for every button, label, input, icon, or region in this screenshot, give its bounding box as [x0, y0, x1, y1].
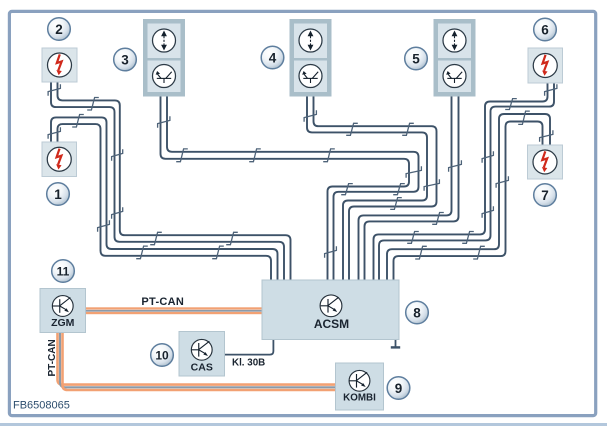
twisted-pair mark [424, 179, 439, 191]
twisted-pair mark [415, 246, 427, 259]
twisted-pair mark [87, 98, 99, 111]
twisted-pair mark [325, 246, 337, 258]
svg-text:4: 4 [269, 51, 277, 66]
twisted-pair mark [406, 166, 421, 178]
control unit ACSM U8 [262, 280, 399, 340]
wire squib1 (+) to ACSM [51, 117, 278, 281]
wire squib6 (-) to ACSM [379, 83, 554, 281]
twisted-pair mark [304, 110, 316, 122]
svg-text:3: 3 [121, 53, 129, 68]
svg-text:10: 10 [155, 348, 169, 362]
igniter squib 2 (driver airbag stage 1) [42, 48, 77, 82]
PT-CAN bus ZGM to ACSM [85, 307, 262, 314]
svg-text:KOMBI: KOMBI [343, 393, 376, 404]
callout badge 2 [48, 18, 71, 41]
svg-text:FB6508065: FB6508065 [13, 399, 70, 411]
callout badge 8 [406, 301, 429, 324]
svg-text:ZGM: ZGM [51, 317, 75, 329]
wire sensor3 (a) to ACSM [161, 97, 410, 282]
igniter squib 7 (passenger airbag stage 2) [528, 145, 563, 179]
twisted-pair mark [112, 149, 123, 161]
twisted-pair mark [323, 149, 335, 162]
twisted-pair mark [482, 151, 493, 163]
twisted-pair mark [346, 123, 358, 135]
module ZGM [40, 289, 86, 333]
twisted-pair mark [518, 111, 530, 124]
twisted-pair mark [432, 213, 444, 225]
wire sensor5 (a) to ACSM [359, 97, 452, 282]
twisted-pair mark [98, 220, 110, 232]
twisted-pair mark [341, 184, 353, 195]
twisted-pair mark [249, 149, 261, 162]
twisted-pair mark [150, 232, 162, 244]
twisted-pair mark [158, 116, 170, 128]
ground symbol ACSM [391, 340, 400, 348]
sensor unit 5 (right seat belt tensioner) [434, 19, 476, 97]
igniter squib 1 (driver airbag stage 2) [42, 142, 77, 177]
wire sensor3 (b) to ACSM [167, 97, 419, 282]
wire sensor5 (b) to ACSM [365, 97, 459, 282]
wire squib7 (-) to ACSM [394, 122, 543, 282]
svg-text:PT-CAN: PT-CAN [141, 296, 184, 308]
sensor unit 3 (left seat belt tensioner) [143, 19, 185, 97]
twisted-pair mark [482, 206, 493, 218]
twisted-pair mark [540, 130, 553, 142]
callout badge 9 [387, 377, 410, 400]
svg-text:5: 5 [412, 52, 420, 67]
twisted-pair mark [473, 246, 485, 259]
wire sensor4 (b) to ACSM [314, 97, 437, 282]
twisted-pair mark [72, 115, 84, 128]
twisted-pair mark [136, 246, 148, 259]
twisted-pair mark [226, 232, 238, 244]
svg-text:1: 1 [54, 187, 62, 202]
svg-text:PT-CAN: PT-CAN [47, 339, 58, 376]
svg-text:8: 8 [413, 306, 421, 321]
svg-text:11: 11 [57, 264, 70, 278]
twisted-pair mark [407, 232, 419, 244]
svg-text:2: 2 [55, 22, 63, 37]
twisted-pair mark [390, 198, 402, 210]
twisted-pair mark [112, 207, 123, 219]
twisted-pair mark [176, 149, 188, 162]
twisted-pair mark [496, 176, 508, 188]
PT-CAN bus ZGM to KOMBI [58, 333, 336, 391]
svg-text:9: 9 [395, 381, 403, 396]
svg-text:ACSM: ACSM [314, 317, 349, 331]
wire Kl. 30B CAS to ACSM [225, 340, 274, 355]
twisted-pair mark [462, 232, 474, 244]
twisted-pair mark [545, 84, 557, 96]
twisted-pair mark [48, 127, 60, 139]
svg-text:Kl. 30B: Kl. 30B [232, 357, 265, 368]
callout badge 6 [534, 18, 557, 41]
module CAS [179, 332, 225, 377]
svg-text:6: 6 [541, 23, 549, 38]
callout badge 10 [151, 344, 174, 367]
callout badge 1 [47, 183, 70, 206]
module KOMBI [336, 363, 384, 410]
svg-text:CAS: CAS [191, 361, 213, 373]
sensor unit 4 (center sensor) [290, 19, 332, 97]
twisted-pair mark [505, 99, 517, 110]
callout badge 3 [114, 48, 137, 71]
twisted-pair mark [402, 123, 414, 135]
twisted-pair mark [212, 246, 224, 259]
wire squib2 (-) to ACSM [51, 82, 284, 281]
twisted-pair mark [48, 84, 60, 96]
callout badge 7 [534, 184, 557, 207]
igniter squib 6 (passenger airbag stage 1) [528, 48, 563, 83]
wire squib1 (-) to ACSM [58, 124, 272, 281]
callout badge 5 [405, 47, 428, 70]
svg-text:7: 7 [541, 188, 549, 203]
wire squib2 (+) to ACSM [58, 82, 291, 281]
wire sensor4 (a) to ACSM [307, 97, 427, 282]
wire squib7 (+) to ACSM [387, 114, 550, 281]
twisted-pair mark [449, 160, 462, 172]
wire squib6 (+) to ACSM [374, 83, 548, 281]
twisted-pair mark [393, 184, 405, 195]
callout badge 11 [52, 260, 75, 283]
callout badge 4 [261, 46, 284, 69]
